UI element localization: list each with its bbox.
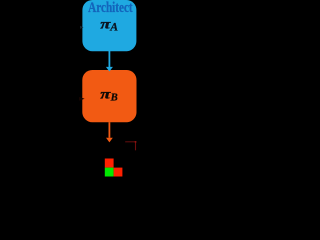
wire: blue arrow architect to builder <box>108 51 110 67</box>
dark arrow tip entering builder box from left <box>79 97 85 101</box>
architect box (policy pi_A) <box>82 0 136 51</box>
svg-text:A: A <box>109 20 118 33</box>
builder box (policy pi_B) <box>82 70 136 122</box>
dark arrow tip entering architect box from left <box>80 26 84 29</box>
grid block red top <box>105 159 114 168</box>
svg-text:Architect: Architect <box>88 0 133 16</box>
wire: orange arrow builder to grid <box>108 122 110 138</box>
grid cell outline corner (dark red bracket) <box>125 141 136 143</box>
grid block green <box>105 168 114 177</box>
grid block red right <box>114 168 123 177</box>
svg-text:π: π <box>100 87 111 102</box>
svg-text:B: B <box>110 93 118 104</box>
